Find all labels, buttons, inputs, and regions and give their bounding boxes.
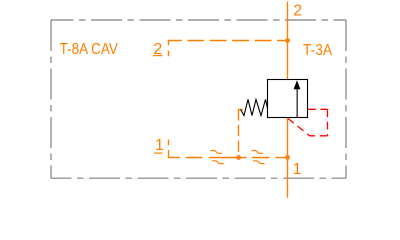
cavity boundary dashed box <box>51 20 346 178</box>
port 2 corner label with underline <box>153 41 163 58</box>
port 1 net line (main vertical wire, lower) <box>287 118 289 198</box>
junction node drain/port1 wire <box>236 155 241 160</box>
pilot dashed line (red) <box>288 109 328 136</box>
junction node at port 2 wire <box>285 38 290 43</box>
svg-text:1: 1 <box>155 137 164 154</box>
drain dashed wire from spring <box>238 109 243 157</box>
relief valve body <box>268 80 308 118</box>
break symbol 2 (upper tilde) <box>252 151 264 154</box>
port 2 stub (vertical) <box>168 41 170 57</box>
valve spring <box>241 99 268 115</box>
break symbol 1 (lower tilde) <box>212 161 224 164</box>
junction node port1/main wire <box>285 155 290 160</box>
port 1 corner label with underline <box>154 137 164 154</box>
svg-text:2: 2 <box>293 3 302 20</box>
break symbol 2 (lower tilde) <box>253 161 265 164</box>
svg-text:1: 1 <box>293 161 302 178</box>
svg-text:T-3A: T-3A <box>303 42 332 59</box>
port 2 net line (main vertical wire, upper) <box>287 2 289 80</box>
svg-text:T-8A CAV: T-8A CAV <box>60 41 119 58</box>
port 1 stub (vertical) <box>168 140 170 158</box>
port 1 dashed wire (horizontal) <box>168 157 288 159</box>
port 2 dashed wire (horizontal) <box>168 40 288 42</box>
valve flow arrow <box>294 80 301 117</box>
break symbol 1 (upper tilde) <box>211 151 223 154</box>
